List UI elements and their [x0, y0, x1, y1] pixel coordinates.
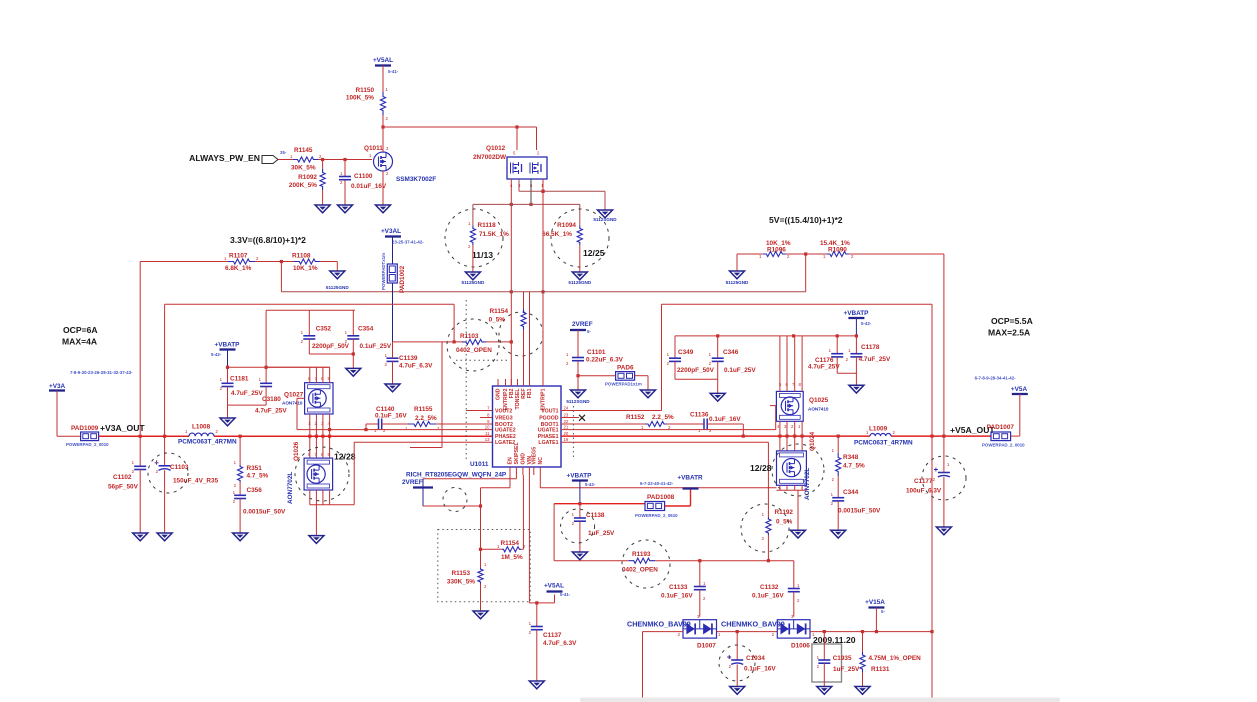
- wire C349 C346 bottoms: [675, 378, 718, 380]
- resistor R1154 1M: [502, 547, 521, 552]
- inductor L1009 PCMC063T_4R7MN: [870, 433, 891, 436]
- ground below C346: [710, 393, 725, 401]
- wire EN to R1145: [278, 159, 293, 161]
- ground below C1102: [133, 533, 148, 541]
- resistor R1150: [380, 92, 385, 115]
- ground below C1935: [817, 687, 832, 695]
- svg-text:GND: GND: [496, 388, 502, 400]
- transistor Q1012 2N7002DW: [507, 157, 547, 179]
- ground 51125GND below R1096: [730, 271, 745, 279]
- dotted line left of IC: [465, 300, 467, 460]
- svg-text:CHENMKO_BAV99: CHENMKO_BAV99: [627, 620, 691, 629]
- transistor Q1026 AON7702L: [304, 458, 333, 490]
- wires Q1027 drain pins: [309, 367, 311, 382]
- capacitor C1181: [227, 367, 229, 383]
- svg-text:6-7-22-40-41-42-: 6-7-22-40-41-42-: [640, 481, 674, 486]
- svg-text:+VBATP: +VBATP: [844, 310, 870, 317]
- svg-text:2009.11.20: 2009.11.20: [813, 635, 856, 645]
- capacitor C1136: [667, 423, 704, 425]
- svg-text:4.7_5%: 4.7_5%: [843, 463, 865, 470]
- wire D1007 left: [643, 631, 684, 633]
- svg-text:ENTRIP1: ENTRIP1: [541, 388, 547, 410]
- svg-text:C1934: C1934: [746, 655, 765, 662]
- svg-text:C1102: C1102: [113, 474, 132, 481]
- svg-text:C354: C354: [358, 326, 374, 333]
- ground below C1178: [849, 385, 864, 393]
- svg-text:Q1011: Q1011: [364, 145, 383, 152]
- svg-text:R1193: R1193: [632, 551, 651, 558]
- ground below C1181: [220, 418, 235, 426]
- wire Q1012 pins down: [510, 179, 512, 292]
- svg-text:AON7410: AON7410: [808, 407, 829, 412]
- svg-text:1uF_25V: 1uF_25V: [833, 666, 860, 673]
- transistor Q1027 AON7410: [305, 383, 333, 414]
- wire R1107 to +V3A_OUT feedback: [140, 261, 228, 263]
- svg-text:R1094: R1094: [557, 222, 576, 229]
- wire divider mid to bus: [255, 261, 294, 263]
- svg-text:5V=((15.4/10)+1)*2: 5V=((15.4/10)+1)*2: [769, 215, 843, 225]
- wire Q1012 to ground right: [519, 190, 605, 192]
- svg-text:0.22uF_6.3V: 0.22uF_6.3V: [586, 357, 624, 364]
- svg-text:GND: GND: [520, 453, 526, 465]
- svg-text:L1008: L1008: [192, 424, 211, 431]
- svg-text:6.8K_1%: 6.8K_1%: [225, 265, 252, 272]
- wire C1181 C3180 bottoms: [228, 404, 267, 406]
- capacitor C346: [717, 336, 719, 358]
- svg-text:PAD1008: PAD1008: [647, 494, 675, 501]
- wire EN net: [509, 475, 511, 488]
- svg-text:R1108: R1108: [292, 253, 311, 260]
- svg-text:AON7702L: AON7702L: [287, 472, 294, 504]
- svg-text:FB2: FB2: [509, 388, 515, 398]
- capacitor C1102: [139, 436, 141, 466]
- resistor R1131 4.75M OPEN: [862, 632, 864, 652]
- svg-text:5112SGND: 5112SGND: [593, 217, 617, 222]
- svg-text:330K_5%: 330K_5%: [447, 579, 475, 586]
- svg-text:PCMC063T_4R7MN: PCMC063T_4R7MN: [178, 439, 237, 446]
- ground 5112SGND below C1101: [571, 390, 586, 398]
- svg-text:POWERPAD_2_0610: POWERPAD_2_0610: [635, 513, 678, 518]
- svg-text:R1150: R1150: [356, 87, 375, 94]
- svg-text:0.0015uF_50V: 0.0015uF_50V: [838, 508, 881, 515]
- rail VBATP left: [228, 366, 330, 368]
- ground 5112SGND right of Q1012: [598, 210, 613, 218]
- svg-text:C346: C346: [723, 349, 739, 356]
- svg-text:MAX=4A: MAX=4A: [62, 337, 97, 347]
- svg-text:MAX=2.5A: MAX=2.5A: [988, 328, 1030, 338]
- dashed circle around C1138: [561, 509, 595, 543]
- wire LGATE2 row: [354, 441, 492, 443]
- svg-text:0.1uF_25V: 0.1uF_25V: [360, 343, 392, 350]
- svg-text:C356: C356: [247, 487, 263, 494]
- rail VBATP right: [675, 335, 856, 337]
- svg-text:U1011: U1011: [470, 461, 489, 468]
- wire charge pump rail: [554, 560, 629, 562]
- wire snubber top rail: [266, 309, 355, 311]
- svg-text:Q1026: Q1026: [293, 441, 300, 461]
- svg-text:ALWAYS_PW_EN: ALWAYS_PW_EN: [189, 153, 260, 163]
- capacitor C1177 (DNP): [938, 472, 950, 474]
- svg-text:C1177: C1177: [914, 478, 933, 485]
- resistor R1092: [322, 160, 324, 170]
- svg-text:30K_5%: 30K_5%: [291, 165, 316, 172]
- svg-text:0.1uF_16V: 0.1uF_16V: [709, 416, 741, 423]
- resistor R348: [837, 436, 839, 453]
- svg-text:C1935: C1935: [833, 655, 852, 662]
- no-connect X on PGOOD: [561, 417, 579, 419]
- wire PAD6 to ground: [635, 375, 648, 377]
- ground below C1100: [338, 205, 353, 213]
- svg-text:C1139: C1139: [399, 355, 418, 362]
- IC top pin stubs: [497, 379, 499, 386]
- svg-text:2200pF_50V: 2200pF_50V: [677, 367, 715, 374]
- dashed circle around R1094: [551, 209, 609, 267]
- wires Q1024 source pins: [777, 489, 807, 491]
- svg-text:VREG3: VREG3: [495, 416, 513, 422]
- dashed circle around R1192: [741, 504, 789, 552]
- dashed circle right of R1103: [499, 312, 543, 356]
- svg-text:R1103: R1103: [460, 333, 479, 340]
- wire R1108 to ground: [321, 261, 338, 263]
- pad PAD6: [578, 375, 616, 377]
- svg-text:R1192: R1192: [775, 509, 794, 516]
- svg-text:LGATE1: LGATE1: [538, 440, 558, 446]
- svg-text:VREG5: VREG5: [531, 447, 537, 465]
- dotted line right of IC: [572, 406, 574, 458]
- resistor R351: [239, 436, 241, 465]
- svg-text:13: 13: [485, 437, 490, 442]
- svg-text:R1131: R1131: [871, 666, 890, 673]
- ground below C1934: [730, 687, 745, 695]
- svg-text:24: 24: [564, 406, 569, 411]
- capacitor C1103 (DNP): [164, 436, 166, 465]
- svg-text:51125GND: 51125GND: [326, 285, 349, 290]
- svg-text:2VREF: 2VREF: [572, 321, 593, 328]
- capacitor C1137: [536, 603, 538, 626]
- ground below R1092: [315, 205, 330, 213]
- svg-text:R348: R348: [843, 454, 859, 461]
- wires Q1026 source pins: [309, 490, 311, 505]
- capacitor C1100: [344, 160, 346, 177]
- capacitor C1133: [699, 561, 701, 587]
- dashed circle around C1934: [719, 645, 755, 681]
- svg-text:UGATE2: UGATE2: [495, 428, 516, 434]
- svg-text:0.1uF_16V: 0.1uF_16V: [375, 413, 407, 420]
- resistor R1154 0_5%: [523, 292, 525, 309]
- svg-text:C1132: C1132: [760, 584, 779, 591]
- dashed circle around R1193: [622, 540, 670, 588]
- ground below Q1026: [309, 536, 324, 544]
- svg-text:OCP=6A: OCP=6A: [63, 325, 98, 335]
- svg-text:D1006: D1006: [791, 643, 810, 650]
- svg-text:C3180: C3180: [262, 396, 281, 403]
- svg-text:R1145: R1145: [294, 147, 313, 154]
- wire R1192 to rail: [767, 535, 769, 561]
- capacitor C344: [837, 476, 839, 498]
- svg-text:R1154: R1154: [501, 540, 520, 547]
- svg-text:21: 21: [564, 425, 569, 430]
- capacitor C1132: [793, 561, 795, 589]
- wire divider mid to bus right: [786, 253, 827, 255]
- dashed circle around C1177: [922, 456, 966, 500]
- svg-text:SSM3K7002F: SSM3K7002F: [396, 176, 436, 183]
- wire R1153 to ground: [480, 584, 482, 611]
- svg-text:0402_OPEN: 0402_OPEN: [622, 567, 658, 574]
- svg-text:R1090: R1090: [828, 247, 847, 254]
- svg-text:4.7uF_25V: 4.7uF_25V: [255, 408, 287, 415]
- ground below C356: [233, 533, 248, 541]
- svg-text:+VBATR: +VBATR: [677, 475, 703, 482]
- IC bottom pin stubs: [509, 467, 511, 475]
- wire R1096 to ground: [737, 253, 763, 255]
- wire LGATE1 row: [561, 441, 768, 443]
- faint band at bottom edge: [580, 698, 1060, 702]
- svg-text:7-8-9-20-23-26-28-31-32-37-43-: 7-8-9-20-23-26-28-31-32-37-43-: [70, 370, 133, 375]
- svg-text:C1136: C1136: [690, 412, 709, 419]
- svg-text:R1154: R1154: [490, 308, 509, 315]
- capacitor C1934 (DNP): [736, 632, 738, 660]
- svg-text:12/28: 12/28: [334, 452, 356, 462]
- svg-text:R1118: R1118: [478, 222, 497, 229]
- wire divider top rail: [473, 203, 580, 205]
- dotted region around R1153 R1154: [438, 530, 530, 602]
- svg-text:R1092: R1092: [298, 174, 317, 181]
- svg-text:+VBATP: +VBATP: [567, 473, 593, 480]
- ground right of PAD6: [641, 390, 656, 398]
- ground below C1138: [572, 552, 587, 560]
- svg-text:0.1uF_16V: 0.1uF_16V: [752, 593, 784, 600]
- svg-text:R1107: R1107: [229, 253, 248, 260]
- resistor R1192: [766, 517, 771, 535]
- svg-text:POWERPAD_2_0010: POWERPAD_2_0010: [982, 443, 1025, 448]
- svg-text:C344: C344: [843, 489, 859, 496]
- svg-text:56pF_50V: 56pF_50V: [108, 484, 139, 491]
- svg-text:+V3A: +V3A: [49, 383, 66, 390]
- svg-text:51125GND: 51125GND: [726, 280, 749, 285]
- resistor R1108: [294, 259, 321, 264]
- svg-text:5-42-: 5-42-: [211, 352, 222, 357]
- svg-text:1uF_25V: 1uF_25V: [588, 530, 615, 537]
- ground below C1139: [385, 384, 400, 392]
- wire VREG3 stub: [480, 417, 493, 419]
- svg-text:5-42-: 5-42-: [861, 321, 872, 326]
- svg-text:4.7uF_25V: 4.7uF_25V: [231, 390, 263, 397]
- svg-text:71.5K_1%: 71.5K_1%: [479, 231, 509, 238]
- svg-text:+V5AL: +V5AL: [373, 57, 393, 64]
- op-amp U1011 RICH_RT8205EGQW (IC box): [493, 386, 562, 467]
- resistor R1152: [645, 421, 667, 426]
- svg-text:4.7uF_6.3V: 4.7uF_6.3V: [543, 640, 577, 647]
- wire R1145 to Q1011 gate: [318, 159, 372, 161]
- svg-text:12/25: 12/25: [583, 248, 605, 258]
- svg-text:C1137: C1137: [543, 632, 562, 639]
- capacitor C1176: [836, 336, 838, 354]
- ground below C1177: [936, 527, 951, 535]
- wire R1103 leads: [393, 341, 463, 343]
- capacitor C354: [347, 335, 359, 337]
- resistor R1155: [382, 423, 408, 425]
- svg-text:PCMC063T_4R7MN: PCMC063T_4R7MN: [854, 440, 913, 447]
- svg-text:100K_5%: 100K_5%: [346, 95, 374, 102]
- svg-text:UGATE1: UGATE1: [538, 428, 559, 434]
- svg-text:0.1uF_16V: 0.1uF_16V: [744, 666, 776, 673]
- wire BOOT1 row: [561, 423, 645, 425]
- svg-text:C352: C352: [316, 326, 332, 333]
- svg-text:11: 11: [485, 431, 490, 436]
- svg-text:5-42-: 5-42-: [585, 482, 596, 487]
- capacitor C349: [674, 336, 676, 358]
- svg-text:100uF_6.3V: 100uF_6.3V: [906, 488, 942, 495]
- svg-text:D1007: D1007: [697, 643, 716, 650]
- transistor Q1025 AON7410: [776, 391, 803, 421]
- svg-text:+V5A: +V5A: [1011, 386, 1028, 393]
- svg-text:CHENMKO_BAV99: CHENMKO_BAV99: [721, 620, 785, 629]
- dashed circle around C1103: [148, 453, 188, 493]
- svg-text:23: 23: [564, 413, 569, 418]
- resistor R1094: [577, 226, 582, 246]
- svg-text:2200pF_50V: 2200pF_50V: [312, 343, 350, 350]
- svg-text:C1178: C1178: [861, 344, 880, 351]
- svg-text:Q1012: Q1012: [486, 145, 506, 152]
- wires Q1025 source to Q1024 drain: [779, 421, 781, 451]
- svg-text:C1133: C1133: [669, 584, 688, 591]
- dotted line above IC: [456, 359, 509, 361]
- svg-text:R1155: R1155: [414, 406, 433, 413]
- svg-text:3.3V=((6.8/10)+1)*2: 3.3V=((6.8/10)+1)*2: [230, 235, 306, 245]
- wire Q1011 drain: [382, 127, 384, 152]
- svg-text:0_5%: 0_5%: [489, 317, 506, 324]
- svg-text:2N7002DW: 2N7002DW: [473, 154, 507, 161]
- wire VOUT2 stub: [466, 410, 493, 412]
- svg-text:+V3A_OUT: +V3A_OUT: [100, 423, 145, 433]
- wire aux vertical: [441, 342, 443, 448]
- svg-text:Q1027: Q1027: [284, 392, 304, 399]
- svg-text:EN: EN: [508, 457, 514, 464]
- svg-text:PAD6: PAD6: [617, 365, 634, 372]
- svg-text:5112SGND: 5112SGND: [566, 399, 590, 404]
- capacitor C356: [239, 482, 241, 495]
- svg-text:19: 19: [564, 437, 569, 442]
- wire D1006 right rail: [810, 631, 932, 633]
- svg-text:10: 10: [485, 425, 490, 430]
- resistor R1118: [470, 226, 475, 246]
- transistor Q1011 SSM3K7002F: [374, 152, 393, 171]
- svg-text:1M_5%: 1M_5%: [501, 554, 523, 561]
- wire 3.3V sense L-shape: [164, 304, 166, 436]
- resistor R1096: [763, 251, 786, 256]
- svg-text:R351: R351: [247, 465, 263, 472]
- ground 51125GND below R1094: [572, 272, 587, 280]
- svg-text:0.1uF_16V: 0.1uF_16V: [661, 593, 693, 600]
- wire D1007 to D1006: [717, 631, 778, 633]
- capacitor C1140: [366, 423, 379, 425]
- svg-text:PAD1002: PAD1002: [399, 265, 406, 293]
- svg-text:4.7_5%: 4.7_5%: [247, 473, 269, 480]
- svg-text:0.01uF_16V: 0.01uF_16V: [351, 183, 387, 190]
- ground below Q1011: [376, 205, 391, 213]
- capacitor C3180: [265, 310, 267, 383]
- wire UGATE1 row: [561, 429, 776, 431]
- resistor R1153 330K: [478, 568, 483, 584]
- wire Q1027 gate: [296, 398, 298, 429]
- capacitor C1935: [823, 632, 825, 660]
- capacitor C1178: [855, 336, 857, 354]
- svg-text:4.7uF_25V: 4.7uF_25V: [859, 356, 891, 363]
- svg-text:Q1025: Q1025: [809, 397, 829, 404]
- rail PHASE1 +V5A_OUT: [561, 435, 870, 437]
- svg-text:5-41-: 5-41-: [560, 592, 571, 597]
- dashed circle around Q1026: [295, 447, 349, 501]
- capacitor C1139: [387, 357, 399, 359]
- svg-text:POWERPAD_2_0010: POWERPAD_2_0010: [66, 442, 109, 447]
- power +VBATR: [665, 505, 691, 507]
- box 2009.11.20: [812, 644, 842, 682]
- svg-text:22: 22: [564, 419, 569, 424]
- svg-text:+V15A: +V15A: [865, 599, 885, 606]
- transistor Q1024 AON7702L: [777, 451, 807, 485]
- svg-text:OCP=5.5A: OCP=5.5A: [991, 316, 1033, 326]
- svg-text:R1152: R1152: [626, 414, 645, 421]
- resistor R1103 0402_OPEN: [462, 339, 486, 344]
- wire FB1 vertical: [529, 292, 531, 386]
- svg-text:PAD1009: PAD1009: [71, 425, 99, 432]
- ground below R1131: [855, 687, 870, 695]
- svg-text:RICH_RT8205EGQW_WQFN_24P: RICH_RT8205EGQW_WQFN_24P: [406, 472, 507, 479]
- ground 51125GND below R1118: [465, 272, 480, 280]
- svg-text:C349: C349: [678, 349, 694, 356]
- svg-text:51125GND: 51125GND: [568, 280, 591, 285]
- svg-text:PAD1007: PAD1007: [987, 424, 1015, 431]
- wire C1176 C1178 bottoms: [837, 372, 856, 374]
- wire R1094 to ground: [579, 245, 581, 272]
- svg-text:LGATE2: LGATE2: [495, 440, 515, 446]
- dashed circle around R1103: [447, 319, 499, 371]
- wire C352 C354 bottoms: [309, 353, 353, 355]
- ground 51125GND below R1108: [330, 271, 345, 279]
- inductor L1008 PCMC063T_4R7MN: [189, 433, 214, 436]
- svg-text:66.5K_1%: 66.5K_1%: [542, 231, 572, 238]
- svg-text:NC: NC: [538, 457, 544, 465]
- svg-text:+VBATP: +VBATP: [215, 342, 241, 349]
- capacitor C1138 (DNP): [579, 504, 581, 518]
- dashed circle around Q1024: [772, 444, 824, 496]
- svg-text:10K_1%: 10K_1%: [293, 265, 318, 272]
- wire R1118 to ground: [472, 245, 474, 272]
- svg-text:2.2_5%: 2.2_5%: [652, 414, 674, 421]
- svg-text:4.7uF_6.3V: 4.7uF_6.3V: [399, 363, 433, 370]
- svg-text:5-: 5-: [587, 329, 591, 334]
- svg-text:12/28: 12/28: [750, 463, 772, 473]
- svg-text:23-25-37-41-42-: 23-25-37-41-42-: [392, 240, 424, 245]
- ground below C354: [346, 368, 361, 376]
- svg-text:C1100: C1100: [354, 173, 373, 180]
- wire ENTRIP1 vertical: [542, 179, 544, 386]
- ground below R1153: [473, 611, 488, 619]
- svg-text:11/13: 11/13: [472, 250, 493, 260]
- wire +V5A_OUT vertical branch: [931, 304, 933, 702]
- svg-text:4.7uF_25V: 4.7uF_25V: [808, 364, 840, 371]
- wire NC row to Q1024 gate: [539, 475, 541, 488]
- svg-text:C1103: C1103: [170, 464, 189, 471]
- svg-text:AON7702L: AON7702L: [804, 468, 811, 500]
- ground below C1103: [157, 533, 172, 541]
- bus wire FB: [281, 291, 805, 293]
- svg-text:L1009: L1009: [869, 426, 888, 433]
- svg-text:PGOOD: PGOOD: [539, 416, 559, 422]
- wire FB2 vertical: [510, 292, 512, 386]
- svg-text:200K_5%: 200K_5%: [289, 182, 317, 189]
- resistor R1090: [827, 251, 850, 256]
